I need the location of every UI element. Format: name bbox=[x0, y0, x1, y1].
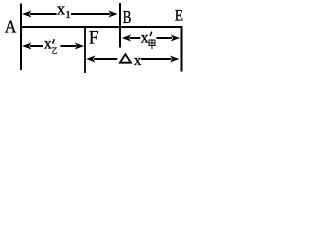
prime mark bbox=[53, 39, 55, 44]
svg-text:B: B bbox=[123, 8, 132, 28]
wire left vertical bbox=[20, 4, 22, 71]
prime mark bbox=[150, 32, 152, 36]
svg-text:E: E bbox=[175, 7, 183, 24]
svg-text:x: x bbox=[134, 53, 142, 69]
dimension arrow x' yi (乙) bbox=[22, 36, 84, 54]
delta triangle bbox=[120, 54, 131, 63]
svg-text:1: 1 bbox=[65, 9, 71, 21]
wire right vertical bbox=[181, 26, 183, 72]
wire main horizontal line bbox=[20, 26, 183, 28]
dimension arrow delta-x bbox=[86, 53, 179, 69]
CJK jia subscript drawn as path bbox=[149, 40, 155, 49]
wire F vertical bbox=[84, 26, 86, 73]
wire B vertical bbox=[119, 3, 121, 48]
svg-text:F: F bbox=[89, 27, 99, 48]
svg-text:x: x bbox=[44, 36, 52, 53]
svg-text:A: A bbox=[5, 17, 16, 37]
dimension arrow x1 bbox=[22, 0, 118, 21]
dimension arrow x' jia (甲) bbox=[122, 29, 180, 49]
svg-text:x: x bbox=[141, 29, 149, 46]
CJK yi subscript drawn as path bbox=[52, 48, 57, 54]
